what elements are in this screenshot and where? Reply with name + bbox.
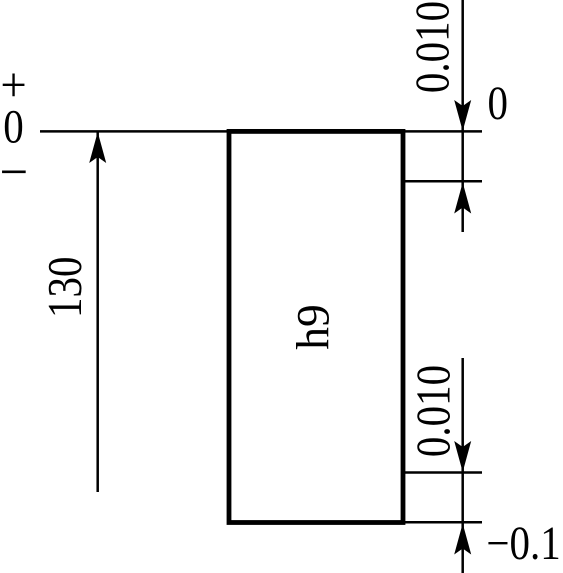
svg-text:−0.1: −0.1 (486, 516, 560, 570)
arrowhead up onto bottom band lower edge (454, 524, 471, 555)
extension line, top tolerance band upper edge (403, 130, 482, 133)
extension line, bottom tolerance band upper edge (403, 471, 482, 474)
extension line, bottom tolerance band lower edge (403, 521, 482, 524)
svg-text:0: 0 (487, 76, 508, 130)
arrowhead up onto top band lower edge (454, 183, 471, 214)
extension line, top tolerance band lower edge (403, 180, 482, 183)
svg-text:0.010: 0.010 (406, 365, 460, 457)
svg-text:130: 130 (38, 256, 92, 317)
arrowhead down onto bottom band upper edge (454, 441, 471, 472)
svg-text:0.010: 0.010 (405, 1, 459, 93)
zero line (40, 130, 230, 133)
svg-text:h9: h9 (287, 304, 338, 349)
dimension line, top 0.010 band (461, 0, 464, 232)
dimension line 130 (vertical) (96, 132, 99, 492)
arrowhead down onto top band upper edge (454, 100, 471, 131)
tolerance zone rectangle h9 (229, 131, 403, 522)
arrowhead up, dimension 130 (89, 132, 106, 163)
dimension line, bottom 0.010 band (461, 358, 464, 573)
svg-text:−: − (0, 143, 28, 201)
